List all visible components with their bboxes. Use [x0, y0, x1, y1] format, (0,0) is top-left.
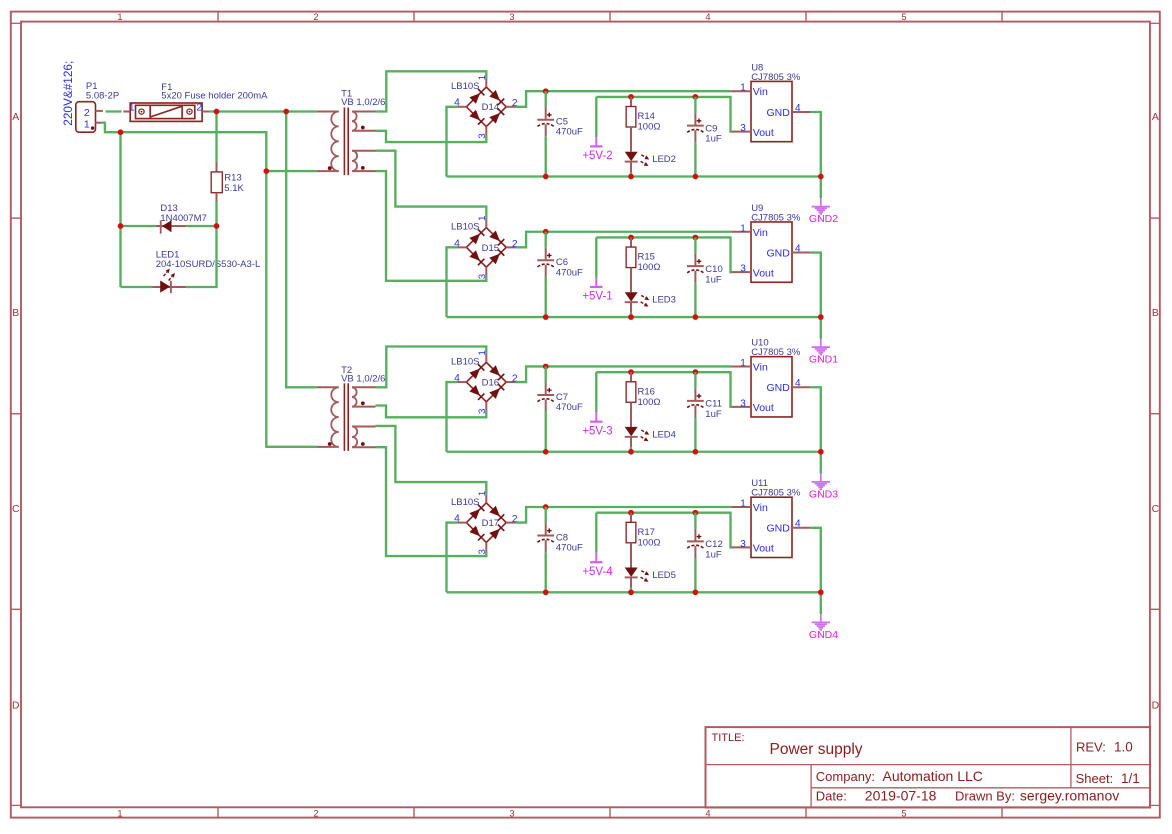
wire U8 GND to rail: [811, 112, 821, 177]
svg-text:Vin: Vin: [753, 502, 768, 514]
svg-text:Vout: Vout: [753, 402, 774, 414]
svg-text:+5V-4: +5V-4: [582, 566, 613, 578]
svg-text:GND: GND: [766, 523, 790, 535]
capacitor C8: [537, 507, 583, 592]
junction ground rail: [693, 589, 699, 595]
svg-text:D17: D17: [482, 518, 499, 529]
svg-text:+5V-3: +5V-3: [582, 425, 612, 437]
svg-text:3: 3: [477, 549, 488, 554]
junction R16 top: [628, 369, 634, 375]
svg-text:100Ω: 100Ω: [638, 262, 661, 273]
svg-text:LB10S: LB10S: [451, 222, 480, 233]
svg-text:1uF: 1uF: [705, 409, 722, 420]
resistor R17: [626, 513, 660, 568]
junction ground rail: [818, 449, 824, 455]
svg-text:1: 1: [117, 12, 122, 22]
junction T1 bottom / T2 feed: [263, 168, 269, 174]
svg-text:3: 3: [740, 264, 746, 275]
wire D16 AC2 from transformer: [376, 406, 487, 418]
wire ground rail: [447, 451, 821, 453]
wire D17 AC1 from transformer: [376, 426, 487, 494]
svg-text:R17: R17: [638, 527, 655, 538]
wire LED1 right: [186, 226, 216, 287]
svg-text:3: 3: [740, 398, 746, 409]
junction ground rail: [628, 314, 634, 320]
svg-text:+5V-2: +5V-2: [582, 150, 612, 162]
svg-text:LED2: LED2: [652, 154, 676, 165]
svg-text:3: 3: [740, 539, 746, 550]
svg-text:A: A: [12, 112, 19, 123]
svg-text:3: 3: [477, 274, 488, 279]
svg-text:Vin: Vin: [753, 361, 768, 373]
wire P1 pin2 to F1 pin1: [106, 110, 122, 112]
capacitor C10: [687, 237, 723, 317]
svg-text:4: 4: [795, 103, 801, 114]
svg-text:R14: R14: [638, 111, 655, 122]
wire D15 pin4 to ground rail: [447, 247, 458, 317]
svg-text:R16: R16: [638, 386, 655, 397]
svg-text:3: 3: [477, 133, 488, 138]
wire D14 AC1 from transformer: [376, 71, 487, 111]
svg-text:C9: C9: [705, 123, 717, 134]
svg-text:LB10S: LB10S: [451, 81, 480, 92]
led LED5: [625, 568, 676, 593]
wire D17 pin2 to U11 Vin: [516, 507, 732, 523]
svg-text:sergey.romanov: sergey.romanov: [1020, 787, 1119, 803]
junction F1 out / R13: [214, 109, 220, 115]
wire D15 AC1 from transformer: [376, 151, 487, 219]
svg-text:Vout: Vout: [753, 543, 774, 555]
svg-text:Company:: Company:: [816, 769, 875, 784]
svg-text:2019-07-18: 2019-07-18: [865, 787, 937, 803]
ground GND1: [809, 317, 838, 366]
svg-text:1: 1: [477, 350, 488, 355]
fuse F1: [123, 82, 268, 121]
net label 220V~: [61, 61, 75, 126]
junction ground rail: [818, 589, 824, 595]
led LED2: [625, 152, 676, 177]
svg-text:2: 2: [313, 12, 318, 22]
junction T1 top / T2 feed: [283, 109, 289, 115]
wire +5V rail to U8 Vout: [596, 97, 731, 132]
wire left drop to D13/LED1: [119, 132, 121, 287]
svg-text:VB 1,0/2/6: VB 1,0/2/6: [341, 97, 385, 108]
junction R17 top: [628, 510, 634, 516]
junction R14 top: [628, 94, 634, 100]
wire P1 pin1 run: [102, 123, 267, 171]
junction C7 top: [543, 364, 549, 370]
wire D16 pin2 to U10 Vin: [516, 366, 732, 382]
capacitor C12: [687, 513, 723, 593]
junction ground rail: [543, 589, 549, 595]
bridge rectifier D16: [451, 350, 518, 414]
svg-text:TITLE:: TITLE:: [712, 732, 745, 744]
regulator U9: [731, 203, 811, 282]
svg-text:B: B: [1152, 308, 1159, 319]
ground GND4: [809, 592, 838, 641]
power flag +5V-2: [582, 97, 612, 162]
svg-text:3: 3: [740, 123, 746, 134]
svg-text:1: 1: [84, 118, 90, 130]
led LED3: [625, 292, 676, 317]
wire D17 AC2 from transformer: [376, 447, 487, 556]
svg-text:D16: D16: [482, 377, 499, 388]
svg-text:GND: GND: [766, 382, 790, 394]
svg-text:100Ω: 100Ω: [638, 122, 661, 133]
regulator U8: [731, 62, 811, 141]
svg-text:470uF: 470uF: [556, 543, 583, 554]
svg-text:5.1K: 5.1K: [224, 183, 244, 194]
regulator U11: [731, 478, 811, 557]
junction P1 pin1 branch: [118, 129, 124, 135]
connector P1: [76, 81, 119, 132]
svg-text:C10: C10: [705, 264, 722, 275]
svg-text:Vin: Vin: [753, 86, 768, 98]
svg-text:LED5: LED5: [652, 570, 676, 581]
junction ground rail: [818, 314, 824, 320]
wire +5V rail to U9 Vout: [596, 237, 731, 272]
svg-text:2: 2: [196, 101, 202, 113]
junction C8 top: [543, 504, 549, 510]
junction C5 top: [543, 88, 549, 94]
wire D16 pin4 to ground rail: [447, 382, 458, 452]
wire D14 pin2 to U8 Vin: [516, 91, 732, 107]
junction C9 top: [693, 94, 699, 100]
svg-text:2: 2: [313, 809, 318, 819]
wire U10 GND to rail: [811, 387, 821, 452]
svg-text:1: 1: [117, 809, 122, 819]
wire D13 left: [121, 225, 156, 227]
wire D16 AC1 from transformer: [376, 347, 487, 388]
svg-text:Drawn By:: Drawn By:: [955, 788, 1015, 803]
junction R15 top: [628, 235, 634, 241]
transformer T1: [317, 89, 386, 176]
svg-text:3: 3: [509, 809, 514, 819]
svg-text:4: 4: [705, 12, 710, 22]
wire R13 branch: [215, 112, 217, 162]
svg-text:GND4: GND4: [809, 629, 838, 641]
wire T1 primary bottom: [266, 170, 317, 172]
svg-text:LED4: LED4: [652, 429, 676, 440]
resistor R14: [626, 97, 660, 152]
junction ground rail: [543, 174, 549, 180]
wire T2 primary top feed: [286, 112, 317, 388]
junction ground rail: [693, 449, 699, 455]
svg-text:4: 4: [795, 519, 801, 530]
junction C10 top: [693, 235, 699, 241]
capacitor C11: [687, 372, 722, 452]
led LED4: [625, 427, 676, 452]
svg-text:100Ω: 100Ω: [638, 397, 661, 408]
junction ground rail: [818, 174, 824, 180]
power flag +5V-1: [582, 237, 612, 302]
wire +5V rail to U11 Vout: [596, 513, 731, 548]
wire U9 GND to rail: [811, 253, 821, 317]
svg-text:220V&#126;: 220V&#126;: [61, 61, 75, 126]
wire +5V rail to U10 Vout: [596, 372, 731, 407]
svg-text:C12: C12: [705, 539, 722, 550]
wire D14 AC2 from transformer: [376, 131, 487, 142]
svg-text:1: 1: [740, 358, 746, 369]
junction ground rail: [693, 174, 699, 180]
wire D13 right: [186, 225, 216, 227]
bridge rectifier D17: [451, 491, 518, 555]
svg-text:1: 1: [477, 491, 488, 496]
led LED1: [153, 250, 261, 294]
junction C12 top: [693, 510, 699, 516]
capacitor C7: [537, 366, 583, 451]
svg-text:Sheet:: Sheet:: [1076, 771, 1114, 786]
svg-text:VB 1,0/2/6: VB 1,0/2/6: [341, 373, 385, 384]
junction ground rail: [628, 449, 634, 455]
svg-text:GND: GND: [766, 247, 790, 259]
junction ground rail: [628, 174, 634, 180]
svg-text:R15: R15: [638, 252, 655, 263]
svg-text:LB10S: LB10S: [451, 356, 480, 367]
transformer T2: [317, 365, 386, 451]
svg-text:A: A: [1152, 112, 1159, 123]
capacitor C5: [537, 91, 583, 176]
svg-text:LB10S: LB10S: [451, 497, 480, 508]
svg-text:1.0: 1.0: [1114, 740, 1133, 755]
svg-text:4: 4: [705, 809, 710, 819]
wire LED1 left: [121, 286, 153, 288]
svg-text:2: 2: [84, 107, 90, 119]
svg-text:LED3: LED3: [652, 295, 676, 306]
capacitor C9: [687, 97, 722, 177]
svg-text:1: 1: [740, 499, 746, 510]
svg-text:4: 4: [795, 378, 801, 389]
svg-text:5: 5: [901, 12, 906, 22]
svg-text:1/1: 1/1: [1121, 771, 1140, 786]
power flag +5V-3: [582, 372, 612, 437]
svg-text:Date:: Date:: [816, 788, 847, 803]
wire R13 to D13 row: [215, 201, 217, 226]
svg-text:D: D: [12, 701, 20, 712]
svg-text:1N4007M7: 1N4007M7: [160, 213, 206, 224]
svg-text:GND: GND: [766, 107, 790, 119]
svg-text:1: 1: [477, 75, 488, 80]
svg-text:Power supply: Power supply: [770, 741, 863, 758]
junction ground rail: [543, 314, 549, 320]
resistor R16: [626, 372, 660, 427]
svg-text:1: 1: [740, 223, 746, 234]
svg-text:D14: D14: [482, 102, 499, 113]
junction C6 top: [543, 229, 549, 235]
svg-text:C11: C11: [705, 399, 722, 410]
svg-text:C: C: [1152, 504, 1160, 515]
wire ground rail: [447, 175, 821, 177]
ground GND3: [809, 452, 838, 501]
wire D15 AC2 from transformer: [376, 171, 487, 281]
svg-text:1: 1: [740, 83, 746, 94]
wire T2 primary bottom feed: [266, 171, 317, 447]
svg-text:1: 1: [477, 216, 488, 221]
junction D13 right: [214, 223, 220, 229]
svg-text:+5V-1: +5V-1: [582, 291, 612, 303]
svg-text:B: B: [12, 308, 19, 319]
junction ground rail: [628, 589, 634, 595]
bridge rectifier D15: [451, 216, 518, 280]
svg-text:470uF: 470uF: [556, 127, 583, 138]
svg-text:REV:: REV:: [1076, 740, 1106, 755]
svg-text:Vout: Vout: [753, 267, 774, 279]
junction C11 top: [693, 369, 699, 375]
ground GND2: [809, 177, 838, 226]
bridge rectifier D14: [451, 75, 518, 139]
svg-text:4: 4: [795, 243, 801, 254]
wire ground rail: [447, 591, 821, 593]
svg-text:D: D: [1152, 701, 1160, 712]
svg-text:1uF: 1uF: [705, 274, 722, 285]
svg-text:5: 5: [901, 809, 906, 819]
wire ground rail: [447, 316, 821, 318]
power flag +5V-4: [582, 513, 613, 578]
svg-text:C: C: [12, 504, 20, 515]
junction D13 left: [118, 223, 124, 229]
svg-text:1uF: 1uF: [705, 134, 722, 145]
regulator U10: [731, 338, 811, 417]
title block: [706, 727, 1151, 807]
diode D13: [156, 203, 207, 234]
svg-text:3: 3: [509, 12, 514, 22]
svg-text:5x20 Fuse holder 200mA: 5x20 Fuse holder 200mA: [161, 90, 268, 101]
svg-text:GND3: GND3: [809, 488, 838, 500]
svg-text:100Ω: 100Ω: [638, 537, 661, 548]
svg-text:1uF: 1uF: [705, 550, 722, 561]
junction ground rail: [693, 314, 699, 320]
wire D15 pin2 to U9 Vin: [516, 232, 732, 248]
wire U11 GND to rail: [811, 528, 821, 593]
svg-text:470uF: 470uF: [556, 402, 583, 413]
wire D14 pin4 to ground rail: [447, 107, 458, 177]
svg-text:GND1: GND1: [809, 354, 838, 366]
resistor R13: [211, 162, 244, 201]
svg-text:204-10SURD/S530-A3-L: 204-10SURD/S530-A3-L: [156, 259, 261, 270]
svg-text:Automation LLC: Automation LLC: [883, 768, 983, 784]
svg-text:GND2: GND2: [809, 213, 838, 225]
svg-text:470uF: 470uF: [556, 267, 583, 278]
svg-text:Vout: Vout: [753, 127, 774, 139]
junction ground rail: [543, 449, 549, 455]
resistor R15: [626, 237, 660, 292]
capacitor C6: [537, 232, 583, 317]
wire D17 pin4 to ground rail: [447, 523, 458, 593]
svg-text:Vin: Vin: [753, 227, 768, 239]
svg-text:3: 3: [477, 409, 488, 414]
svg-text:5.08-2P: 5.08-2P: [86, 90, 119, 101]
svg-text:D15: D15: [482, 243, 499, 254]
wire F1 pin2 to T1 primary top: [209, 110, 317, 112]
